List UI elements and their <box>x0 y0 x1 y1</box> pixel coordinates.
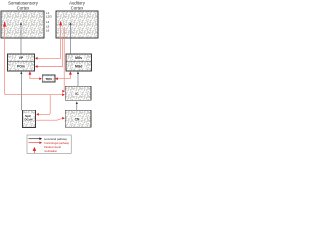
wire red SpV to CN <box>36 118 62 120</box>
arrowhead dark into S1 L4 <box>20 22 22 25</box>
wire dark CN to IC <box>76 103 78 110</box>
arrowhead dark into A1 <box>69 22 71 25</box>
legend arrow corticofugal (red) <box>28 142 39 144</box>
wire red S1 trunk down left side and across to IC <box>5 23 63 95</box>
label SpV, <box>24 113 34 121</box>
arrowhead red into TRN right <box>55 77 58 80</box>
arrowhead red into POm right <box>35 65 38 68</box>
arrowhead red into VP right <box>35 57 38 60</box>
wire dark VP to S1 <box>20 24 22 54</box>
svg-text:Corticofugal pathway: Corticofugal pathway <box>44 141 70 145</box>
box S1 somatosensory cortex <box>1 11 44 38</box>
label IC <box>74 91 81 95</box>
arrowhead red into IC lower-left (y 94.7) <box>62 93 65 96</box>
legend arrow lemniscal (dark) <box>28 138 39 140</box>
wire dark IC to MG <box>77 74 79 87</box>
arrowhead red up into MGd bottom <box>69 71 72 74</box>
svg-text:Cortex: Cortex <box>17 5 31 10</box>
arrowhead red into IC left (y 91.3) <box>62 90 65 93</box>
box SpV DCoN brainstem <box>23 110 36 127</box>
box legend frame <box>27 135 71 153</box>
svg-text:DCoN: DCoN <box>24 118 32 122</box>
box TRN <box>42 75 55 82</box>
label MGd <box>73 64 85 68</box>
arrowhead red up into POm bottom <box>28 71 31 74</box>
wire red junction to TRN right <box>57 78 71 80</box>
label POm <box>16 64 27 68</box>
label CN <box>73 117 80 121</box>
label VP <box>16 56 26 60</box>
box CN cochlear nucleus <box>65 110 91 127</box>
box IC inferior colliculus <box>65 86 91 100</box>
arrowhead dark into MG bottom <box>77 71 79 74</box>
svg-text:Lemniscal pathway: Lemniscal pathway <box>44 137 68 141</box>
wire red A1 descending trunk to TRN junction and IC <box>63 28 65 92</box>
divider VP/POm <box>8 60 35 62</box>
svg-text:Cortex: Cortex <box>71 5 85 10</box>
svg-text:TRN: TRN <box>45 77 52 81</box>
wire dark SpV to POm <box>20 74 22 111</box>
wire red A1 to POm <box>37 38 62 67</box>
arrowhead red up into S1 <box>3 21 6 27</box>
arrowhead red into TRN left <box>39 77 42 80</box>
label Auditory Cortex title <box>69 1 86 11</box>
arrowhead dark into POm bottom <box>20 71 22 74</box>
svg-text:MGv: MGv <box>75 56 82 60</box>
arrowhead red into CN left edge <box>62 117 65 120</box>
svg-text:modulation: modulation <box>44 149 58 153</box>
label TRN <box>44 77 52 81</box>
label Somatosensory Cortex title <box>8 1 39 11</box>
box VP POm thalamus <box>8 54 35 71</box>
wire red branch down to SpV <box>39 95 51 115</box>
arrowhead dark into IC bottom <box>76 101 78 104</box>
arrowhead red into SpV right edge <box>36 113 39 116</box>
wire red stem up into MGd <box>69 74 71 79</box>
wire dark MGv to A1 <box>69 24 71 54</box>
wire red POm-TRN elbow <box>30 74 40 79</box>
divider MGv/MGd <box>66 60 92 62</box>
arrowhead red up into A1 <box>59 21 62 26</box>
svg-text:L2/3: L2/3 <box>46 15 52 19</box>
svg-text:MGd: MGd <box>75 65 82 69</box>
box A1 auditory cortex <box>56 11 98 38</box>
box MGv MGd thalamus <box>66 54 92 71</box>
wire red A1 up-arrow stem down to VP <box>37 23 60 58</box>
legend arrow paralemniscal (red, up) <box>33 150 35 153</box>
svg-text:L6: L6 <box>46 29 50 33</box>
svg-text:Paralemniscal: Paralemniscal <box>44 145 61 149</box>
svg-text:POm: POm <box>17 65 25 69</box>
label MGv <box>73 56 85 60</box>
svg-text:CN: CN <box>75 118 80 122</box>
